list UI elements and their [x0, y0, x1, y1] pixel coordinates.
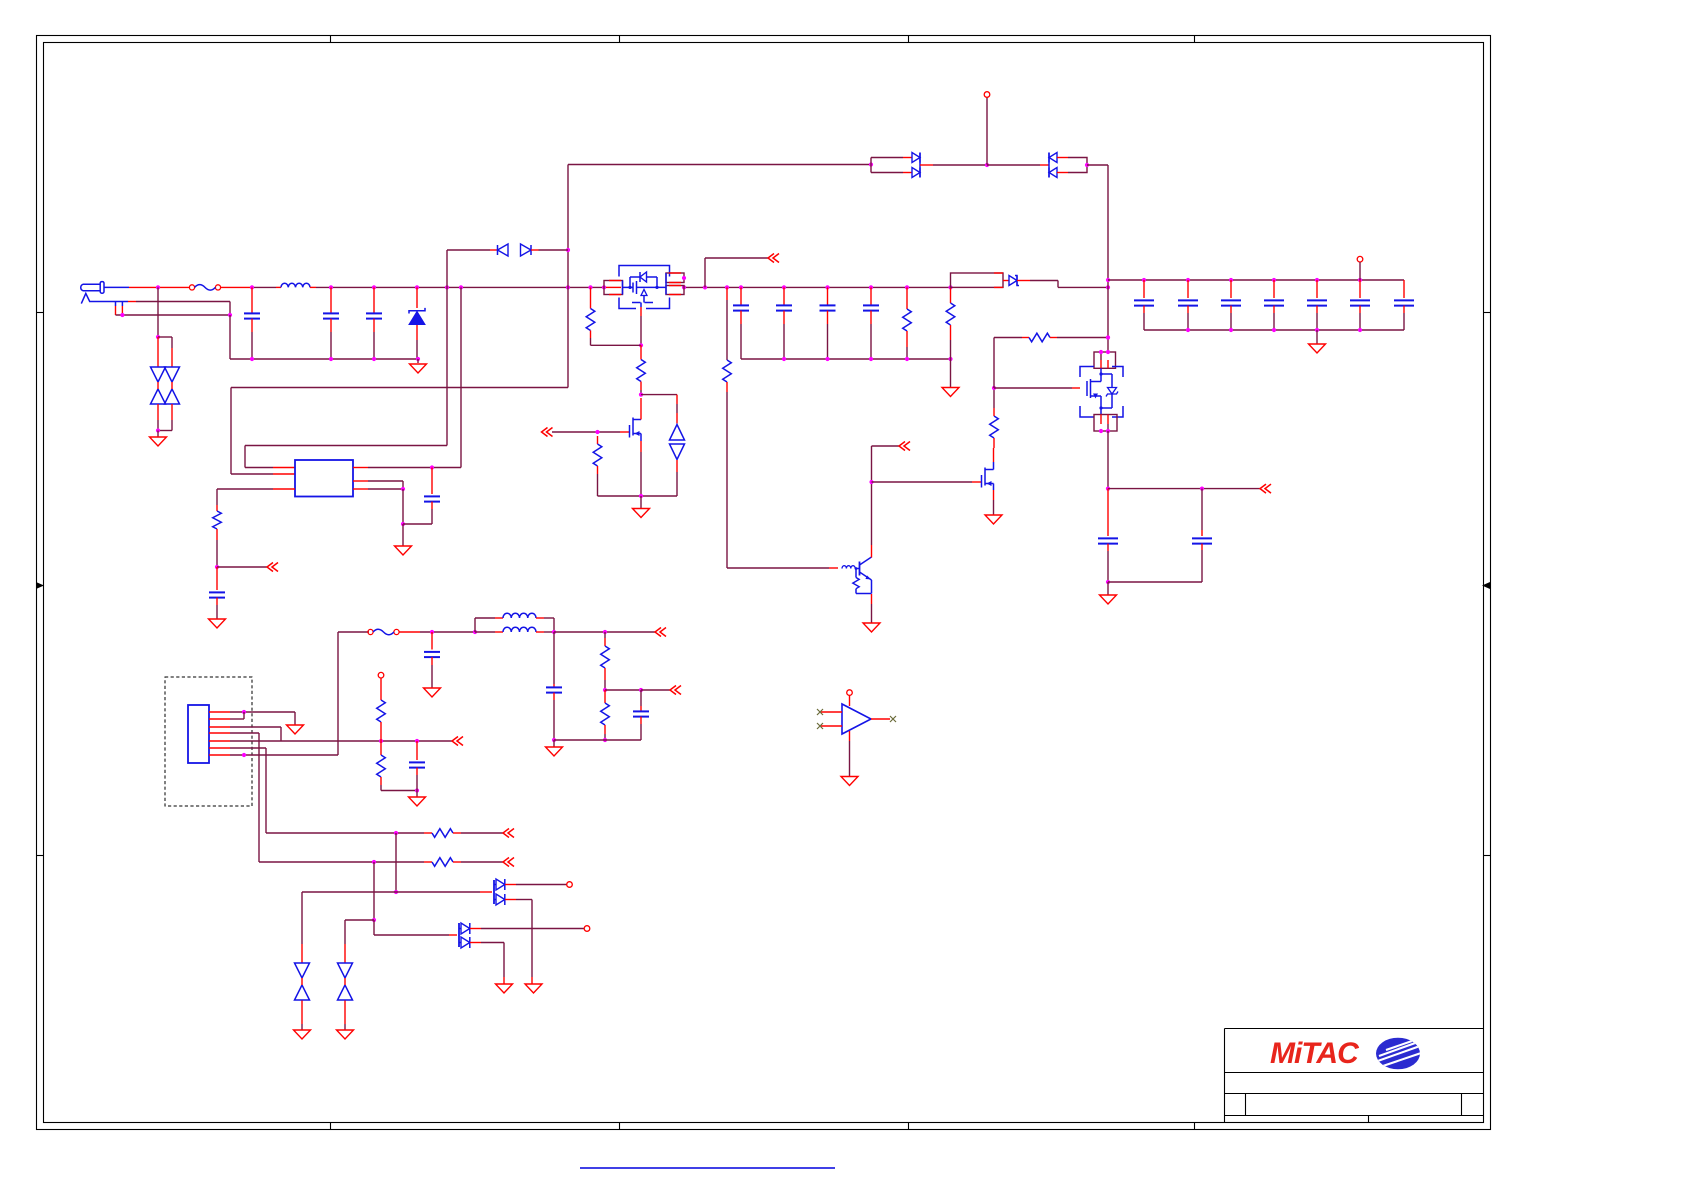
svg-text:MiTAC: MiTAC — [1270, 1037, 1360, 1070]
